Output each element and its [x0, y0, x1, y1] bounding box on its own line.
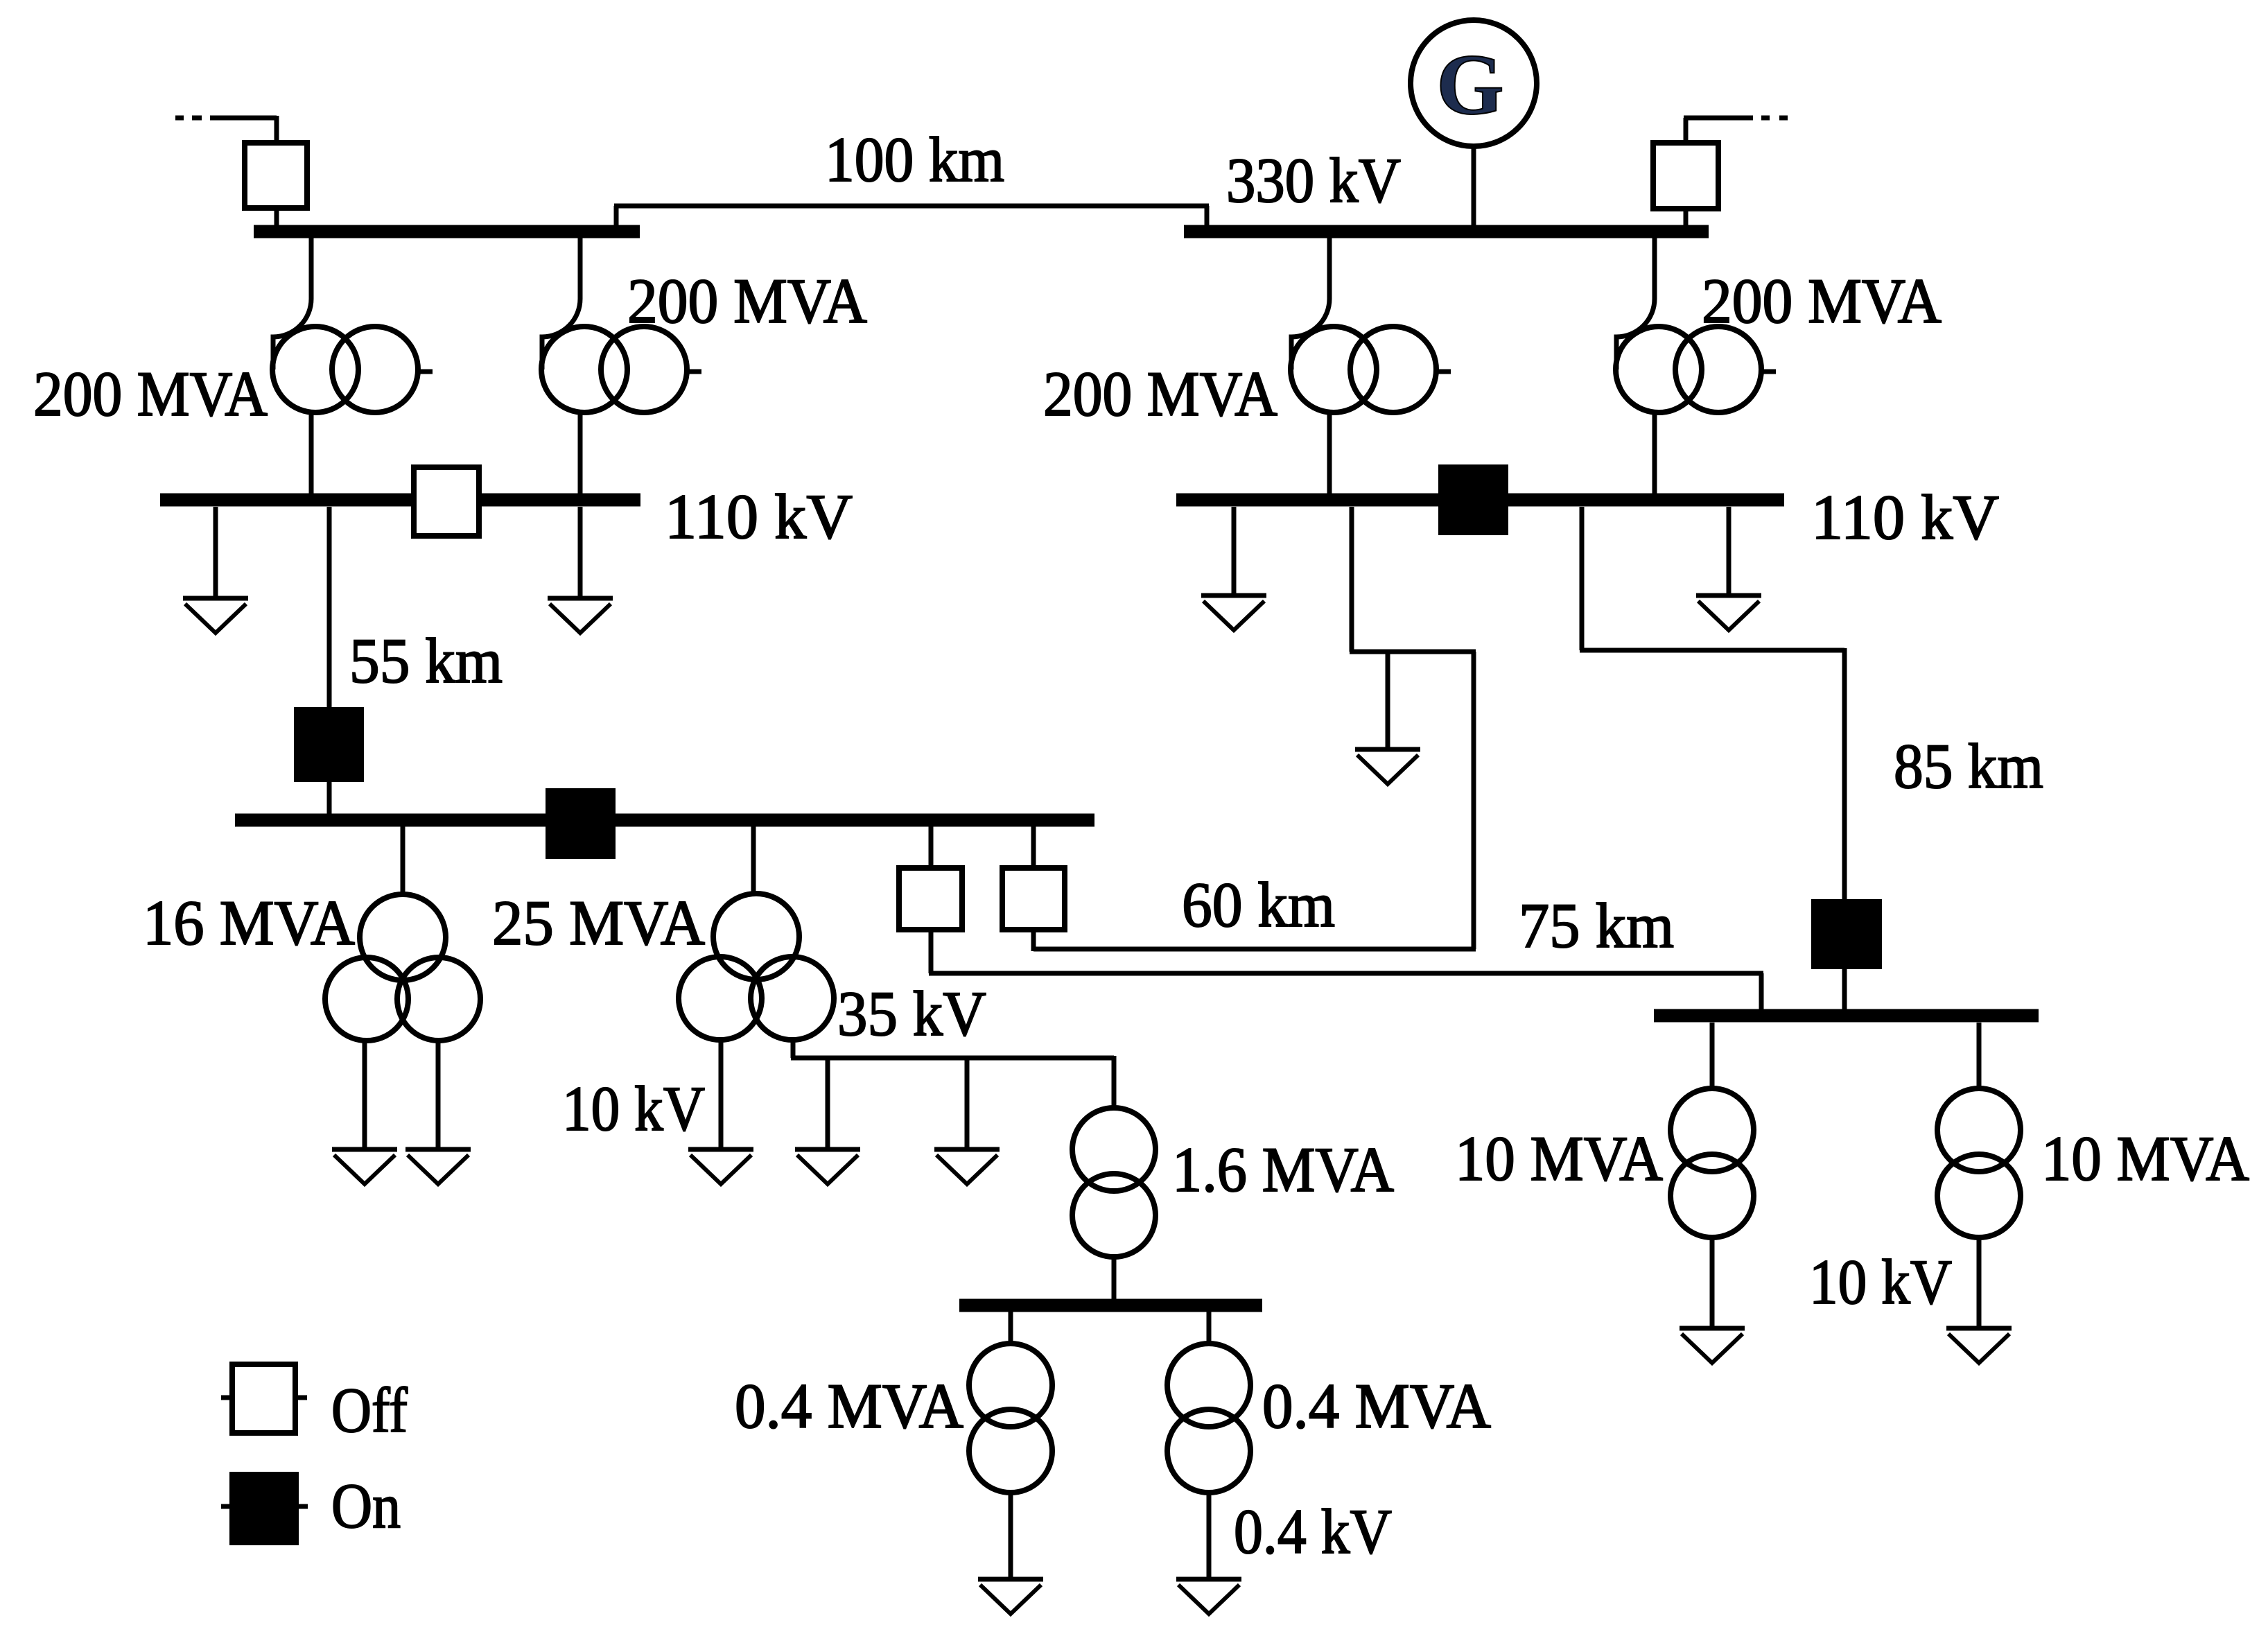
svg-text:10 MVA: 10 MVA: [2041, 1123, 2249, 1194]
switch off (110 kV left bus tie): [414, 467, 479, 536]
load arrow (110 kV right bus, left): [1201, 596, 1266, 630]
wire: right bus to 10 MVA transformer 1: [1710, 1023, 1715, 1090]
load arrow (60 km line branch): [1355, 749, 1420, 784]
transformer 16 MVA (three-winding): [325, 894, 480, 1041]
wire: 0.4 MVA 1 load: [1009, 1491, 1013, 1579]
wire: T1 to 110 kV left bus: [309, 412, 314, 494]
wire: load branch off 60 km line: [1386, 652, 1390, 749]
bus 10 kV right: [1654, 1009, 2039, 1023]
wire: 55 km line upper: [327, 507, 332, 710]
wire: 60 km line: [1033, 507, 1476, 951]
wire: 1.6 MVA to 0.4 kV bus: [1112, 1255, 1117, 1301]
svg-text:10 kV: 10 kV: [1809, 1246, 1952, 1317]
wire: S2 to 330 kV right bus: [1684, 209, 1689, 227]
wire: right bus to transformer T4: [1652, 238, 1657, 297]
svg-text:1.6 MVA: 1.6 MVA: [1172, 1134, 1394, 1205]
wire: S1 to 330 kV left bus: [274, 208, 279, 227]
svg-text:200 MVA: 200 MVA: [627, 266, 867, 336]
transformer 10 MVA left: [1671, 1088, 1754, 1237]
bus 110 kV right: [1176, 494, 1784, 507]
wire: feeder to 1.6 MVA transformer: [1112, 1056, 1117, 1109]
switch off (75 km line at 35 kV bus): [899, 868, 962, 930]
svg-text:35 kV: 35 kV: [837, 978, 986, 1049]
wire: left bus to transformer T1: [309, 238, 314, 297]
svg-text:Off: Off: [331, 1375, 408, 1445]
wire: T2 to 110 kV left bus: [578, 412, 583, 494]
wire: 25 MVA 35 kV feeder: [791, 1041, 1114, 1058]
transformer 25 MVA (three-winding): [679, 894, 834, 1040]
wire: left bus load 1: [213, 507, 218, 598]
svg-text:110 kV: 110 kV: [1811, 482, 1999, 553]
svg-text:110 kV: 110 kV: [665, 481, 853, 552]
switch on (110 kV right bus tie): [1441, 467, 1506, 532]
svg-text:On: On: [331, 1470, 401, 1541]
wire: right bus to 10 MVA transformer 2: [1977, 1023, 1982, 1090]
bus 35 kV: [235, 814, 1094, 827]
wire: dashed stub to external grid (top-right): [1684, 118, 1788, 143]
svg-text:330 kV: 330 kV: [1226, 145, 1401, 216]
svg-text:10 MVA: 10 MVA: [1455, 1123, 1663, 1194]
wire: 60 km switch to 35 kV bus: [1031, 826, 1036, 868]
legend: on switch symbol: [221, 1475, 308, 1542]
svg-text:200 MVA: 200 MVA: [1702, 266, 1942, 336]
wire: left bus to transformer T2: [578, 238, 583, 297]
transformer T1 200 MVA: [272, 295, 433, 412]
wire: 10 MVA 2 load: [1977, 1236, 1982, 1328]
wire: left bus load 2: [578, 507, 583, 598]
wire: T3 to 110 kV right bus: [1327, 412, 1332, 494]
wire: 16 MVA secondary load 2: [436, 1040, 441, 1149]
transformer 10 MVA right: [1937, 1088, 2021, 1237]
load arrow (16 MVA secondary 2): [405, 1149, 471, 1184]
wire: 55 km line lower: [327, 779, 332, 815]
load arrow (feeder branch 1): [795, 1149, 860, 1184]
transformer T2 200 MVA: [541, 295, 701, 412]
load arrow (10 MVA right): [1946, 1328, 2012, 1363]
load arrow (110 kV left bus, right): [548, 598, 613, 633]
wire: feeder load branch 2: [965, 1058, 970, 1149]
wire: 75 km line: [929, 826, 1763, 1011]
load arrow (feeder branch 2): [934, 1149, 1000, 1184]
wire: right bus to transformer T3: [1327, 238, 1332, 297]
wire: 16 MVA secondary load 1: [363, 1040, 367, 1149]
switch off (60 km line at 35 kV bus): [1002, 868, 1065, 930]
svg-text:200 MVA: 200 MVA: [33, 358, 268, 429]
load arrow (110 kV right bus, right): [1696, 596, 1761, 630]
svg-text:10 kV: 10 kV: [562, 1073, 705, 1144]
wire: feeder load branch 1: [826, 1058, 830, 1149]
wire: 0.4 kV bus to 0.4 MVA transformer 2: [1207, 1312, 1212, 1345]
wire: right bus load 1: [1232, 507, 1237, 596]
switch S2 off (top-right stub): [1653, 143, 1718, 209]
bus 330 kV left: [254, 225, 640, 238]
generator G: [1411, 20, 1537, 146]
bus 330 kV right: [1184, 225, 1709, 238]
svg-text:60 km: 60 km: [1182, 869, 1335, 940]
wire: T4 to 110 kV right bus: [1652, 412, 1657, 494]
transformer T4 200 MVA: [1616, 295, 1776, 412]
switch S1 off (top-left stub): [245, 143, 307, 208]
svg-text:55 km: 55 km: [349, 625, 503, 696]
wire: 10 MVA 1 load: [1710, 1236, 1715, 1328]
svg-text:0.4 kV: 0.4 kV: [1234, 1496, 1392, 1567]
transformer 1.6 MVA: [1072, 1108, 1155, 1257]
wire: right bus load 2: [1727, 507, 1731, 596]
load arrow (110 kV left bus, left): [183, 598, 248, 633]
load arrow (0.4 MVA left): [978, 1579, 1043, 1614]
svg-text:100 km: 100 km: [825, 124, 1004, 195]
svg-text:0.4 MVA: 0.4 MVA: [735, 1371, 963, 1441]
svg-text:G: G: [1436, 37, 1503, 133]
wire: 35 kV bus to 25 MVA transformer: [751, 826, 756, 895]
transformer T3 200 MVA: [1291, 295, 1451, 412]
wire: generator to 330 kV right bus: [1472, 146, 1476, 227]
transformer 0.4 MVA right: [1167, 1344, 1250, 1493]
svg-text:200 MVA: 200 MVA: [1043, 358, 1277, 429]
transformer 0.4 MVA left: [969, 1344, 1052, 1493]
load arrow (10 MVA left): [1680, 1328, 1745, 1363]
wire: 0.4 kV bus to 0.4 MVA transformer 1: [1009, 1312, 1013, 1345]
load arrow (10 kV load): [688, 1149, 753, 1184]
wire: 85 km line: [1580, 507, 1844, 902]
svg-text:0.4 MVA: 0.4 MVA: [1262, 1371, 1491, 1441]
wire: 25 MVA 10 kV load: [719, 1041, 724, 1149]
legend: off switch symbol: [221, 1364, 307, 1433]
load arrow (0.4 MVA right): [1176, 1579, 1241, 1614]
svg-text:85 km: 85 km: [1894, 731, 2043, 801]
wire: dashed stub to external grid (top-left): [175, 116, 277, 143]
svg-text:16 MVA: 16 MVA: [143, 887, 355, 958]
wire: 0.4 MVA 2 load: [1207, 1491, 1212, 1579]
switch on (85 km line): [1814, 902, 1879, 966]
wire: 85 km switch to 10 kV right bus: [1842, 966, 1847, 1011]
svg-text:75 km: 75 km: [1519, 890, 1674, 961]
bus 0.4 kV: [959, 1299, 1262, 1312]
wire: 100 km line: [614, 206, 1209, 227]
wire: 35 kV bus to 16 MVA transformer: [401, 826, 405, 896]
bus 110 kV left: [160, 494, 640, 507]
svg-text:25 MVA: 25 MVA: [492, 887, 705, 958]
load arrow (16 MVA secondary 1): [332, 1149, 397, 1184]
switch on (55 km line): [297, 710, 361, 779]
switch on (35 kV bus tie): [548, 791, 613, 856]
